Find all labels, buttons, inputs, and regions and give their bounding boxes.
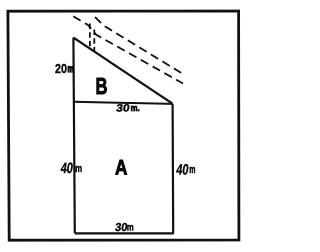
upper dashed diagonal xyxy=(95,17,186,76)
svg-text:m: m xyxy=(68,64,75,75)
svg-text:40: 40 xyxy=(175,161,189,178)
svg-text:m: m xyxy=(75,163,82,175)
svg-text:30: 30 xyxy=(115,103,130,115)
rectangle A bottom side (30m) xyxy=(75,232,174,234)
svg-text:40: 40 xyxy=(60,160,74,177)
right vertical dashed line xyxy=(93,30,95,52)
svg-text:B: B xyxy=(96,73,108,99)
outer border frame xyxy=(8,11,239,240)
svg-text:A: A xyxy=(115,157,127,180)
svg-text:m.: m. xyxy=(131,103,140,113)
lower dashed diagonal xyxy=(73,16,183,83)
line between A and B (30 m. side) xyxy=(73,102,172,104)
triangle B hypotenuse xyxy=(73,38,172,104)
svg-text:m: m xyxy=(127,223,134,234)
svg-text:20: 20 xyxy=(55,61,67,76)
left vertical dashed line xyxy=(89,24,91,49)
triangle B left side + rectangle A left side (vertical line 20m+40m) xyxy=(73,38,74,234)
rectangle A right side (40 m) xyxy=(172,104,175,233)
svg-text:m: m xyxy=(189,164,195,176)
